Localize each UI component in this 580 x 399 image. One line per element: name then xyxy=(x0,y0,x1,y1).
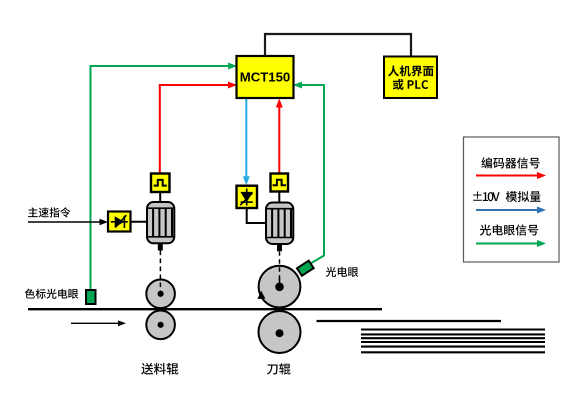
encoder B2 (pulse box) xyxy=(271,174,289,192)
text 刀辊 knife roller label xyxy=(267,363,291,374)
HMI / PLC box xyxy=(384,57,437,99)
wire encoder B1 to MCT150 (red) xyxy=(160,85,234,174)
text 人机界面 xyxy=(388,65,434,76)
coupling dashed shaft M1 to feed roller xyxy=(159,251,161,292)
wire encoder B2 to MCT150 (red) xyxy=(278,102,280,174)
drive A1 thyristor symbol xyxy=(111,215,128,228)
legend arrow photo-eye signal (green) xyxy=(476,243,539,245)
legend text 编码器信号 xyxy=(481,157,539,168)
knife photo-eye sensor (green, rotated) xyxy=(297,261,314,276)
encoder B1 (pulse box) xyxy=(151,174,170,193)
wire encoder B1 to motor M1 xyxy=(159,192,161,203)
legend box xyxy=(464,137,560,262)
coupling dashed shaft M2 to knife roller xyxy=(279,251,281,283)
drive A2 (knife motor drive, yellow box) xyxy=(237,186,258,208)
stacked sheets xyxy=(361,330,545,353)
text 色标光电眼 xyxy=(25,289,78,299)
cut sheet line xyxy=(317,320,502,322)
feed roller lower xyxy=(146,311,175,340)
drive A1 (feed motor drive, yellow box) xyxy=(108,212,131,232)
wire controller-to-HMI (black) xyxy=(265,34,411,56)
legend arrow analog (blue) xyxy=(476,209,539,211)
knife roller rotation arrow xyxy=(257,291,265,299)
knife roller upper xyxy=(259,266,301,308)
text master speed command 主速指令 xyxy=(28,207,70,217)
motor M2 shaft xyxy=(277,244,282,251)
wire drive A1 to motor M1 xyxy=(131,221,148,223)
color-mark photo-eye sensor (green) xyxy=(86,290,96,304)
drive A2 thyristor symbol (rotated) xyxy=(240,189,253,206)
text 或 PLC xyxy=(393,79,404,90)
wire drive A2 to motor M2 xyxy=(247,208,266,223)
text 光电眼 xyxy=(326,267,358,277)
wire color-mark photo-eye to MCT150 (green) xyxy=(91,66,234,290)
legend text 光电眼信号 xyxy=(480,224,539,235)
controller MCT150 xyxy=(237,56,294,98)
web direction arrow xyxy=(71,322,121,324)
legend text ±10V 模拟量 xyxy=(473,191,499,201)
motor M1 shaft xyxy=(158,243,163,250)
wire knife photo-eye to MCT150 (green) xyxy=(297,85,325,264)
feed roller upper xyxy=(146,280,175,309)
legend arrow encoder signal (red) xyxy=(476,175,539,177)
motor M1 (feed roller motor) xyxy=(147,202,174,243)
motor M2 (knife roller motor) xyxy=(266,203,293,245)
web material line xyxy=(28,308,382,310)
text 送料辊 feed roller label xyxy=(141,363,178,375)
wire encoder B2 to motor M2 xyxy=(278,192,280,204)
knife roller lower xyxy=(259,311,301,353)
svg-text:MCT150: MCT150 xyxy=(240,70,291,85)
wire MCT150 to drive A2 (blue analog) xyxy=(245,98,247,182)
wire speed command arrow (black) xyxy=(28,221,104,223)
